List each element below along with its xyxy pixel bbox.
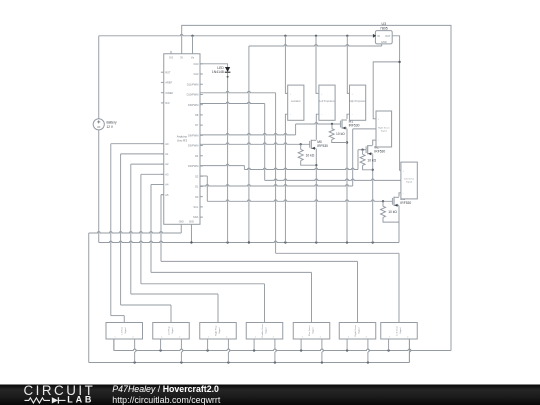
svg-text:Elev Servo: Elev Servo <box>308 325 311 336</box>
svg-text:2: 2 <box>226 337 227 339</box>
wire 12V to left propulsion fan + <box>316 36 318 94</box>
svg-text:2: 2 <box>273 337 274 339</box>
wire LED cathode to ground <box>227 73 229 243</box>
svg-text:D4: D4 <box>195 154 199 158</box>
wire D3 to M2 gate <box>200 149 366 170</box>
svg-text:OUT: OUT <box>385 34 391 38</box>
svg-text:D2: D2 <box>195 174 199 178</box>
resistor R2 10k pulldown <box>360 150 377 170</box>
wire D5 to M0 gate <box>200 143 310 146</box>
svg-text:Lift Fan: Lift Fan <box>121 326 124 334</box>
wire U3 OUT 5V to servo connectors <box>373 36 401 171</box>
connector P7 Left Servo <box>381 323 418 363</box>
wire 12V to levitation fan + <box>285 36 287 94</box>
wire A2 to bottom connector <box>131 164 218 322</box>
wire D1 to right servo signal <box>200 129 376 186</box>
svg-text:GND: GND <box>189 222 194 224</box>
svg-text:2: 2 <box>407 337 408 339</box>
svg-text:Signal: Signal <box>265 327 267 334</box>
connector P5 Elev Servo <box>293 323 330 363</box>
svg-text:7805: 7805 <box>380 27 388 31</box>
servo box Right Servo Signal <box>376 111 392 147</box>
svg-text:10 kΩ: 10 kΩ <box>388 210 397 214</box>
svg-text:5V: 5V <box>180 58 183 60</box>
svg-text:Right Servo: Right Servo <box>378 126 390 129</box>
wire M1 source to ground <box>346 129 348 243</box>
wire Vin feed <box>192 36 194 54</box>
svg-text:Uno R3: Uno R3 <box>177 139 188 143</box>
svg-text:2: 2 <box>132 337 133 339</box>
CircuitLab logo <box>24 383 96 405</box>
svg-text:D13: D13 <box>194 62 199 66</box>
svg-text:IN: IN <box>377 34 380 38</box>
wire right prop fan - to M1 drain <box>347 114 350 119</box>
svg-text:D12: D12 <box>194 72 199 76</box>
svg-text:A1: A1 <box>165 152 169 156</box>
svg-text:D3/PWM: D3/PWM <box>188 164 198 168</box>
transistor M1 IRF530 <box>340 119 359 129</box>
resistor R1 10k pulldown <box>329 124 347 143</box>
svg-text:1: 1 <box>302 337 303 339</box>
svg-text:Battery: Battery <box>107 121 118 125</box>
svg-text:D8: D8 <box>195 113 199 117</box>
wire main ground bus from battery minus <box>99 130 399 244</box>
svg-text:Left Prop: Left Prop <box>168 325 171 335</box>
wire Arduino GND2 stub <box>190 224 192 242</box>
svg-text:Right Servo: Right Servo <box>354 324 357 336</box>
svg-text:AREF: AREF <box>165 81 172 85</box>
transistor M2 IRF530 <box>366 145 385 155</box>
svg-text:IRF530: IRF530 <box>400 201 411 205</box>
svg-text:Signal: Signal <box>125 327 127 334</box>
svg-text:D0: D0 <box>195 195 199 199</box>
svg-text:Signal: Signal <box>312 327 314 334</box>
connector P4 Rudder Servo <box>246 323 283 363</box>
svg-text:2: 2 <box>366 337 367 339</box>
fan box Right Propulsion <box>349 85 367 120</box>
wire U3 GND to ground bus <box>249 44 382 243</box>
wire Arduino GND1 to left ground loop and bottom ground bus <box>89 224 410 363</box>
servo box Left Servo Signal <box>401 162 417 199</box>
svg-text:D5/PWM: D5/PWM <box>188 144 198 148</box>
svg-text:IRF530: IRF530 <box>374 150 385 154</box>
svg-text:A4: A4 <box>165 183 169 187</box>
svg-text:1: 1 <box>114 337 115 339</box>
wire A3 to bottom connector <box>141 174 265 322</box>
wire 5V rail from Arduino 5V pin to bottom connector bus <box>114 25 451 351</box>
svg-text:3V3: 3V3 <box>169 58 174 60</box>
footer title text <box>112 384 221 405</box>
wire M0 source to ground <box>315 149 317 243</box>
wire A0 to bottom connector <box>111 144 164 323</box>
svg-text:A0: A0 <box>165 142 169 146</box>
svg-text:LAB: LAB <box>67 395 94 405</box>
wire M2 drain to right servo gnd pin <box>373 140 376 145</box>
svg-text:RST: RST <box>165 70 171 74</box>
resistor R0 10k pulldown <box>298 144 316 165</box>
svg-text:U3: U3 <box>382 22 387 26</box>
connector P1 Lift Fan <box>106 323 143 363</box>
wire A5 to bottom connector <box>161 195 358 323</box>
svg-text:GND: GND <box>179 222 184 224</box>
battery V1 12V <box>93 119 117 130</box>
wire D9 to left servo signal <box>200 102 401 180</box>
wire 12V to right propulsion fan + <box>347 36 349 94</box>
svg-text:A2: A2 <box>165 162 169 166</box>
svg-text:Signal: Signal <box>358 327 360 334</box>
svg-text:SDA: SDA <box>193 215 199 219</box>
wire D2 to M3 gate <box>200 176 392 203</box>
svg-text:D10/PWM: D10/PWM <box>187 93 199 97</box>
svg-text:http://circuitlab.com/ceqwrrt: http://circuitlab.com/ceqwrrt <box>112 395 221 405</box>
wire A4 to bottom connector <box>151 185 312 323</box>
svg-text:P47Healey / Hovercraft2.0: P47Healey / Hovercraft2.0 <box>112 384 219 394</box>
svg-text:1: 1 <box>161 337 162 339</box>
svg-text:Signal: Signal <box>400 327 402 334</box>
svg-text:IRF530: IRF530 <box>349 124 360 128</box>
svg-text:Rudder Servo: Rudder Servo <box>261 323 264 337</box>
connector P3 Right Prop <box>200 323 237 363</box>
connector P6 Right Servo <box>339 323 376 363</box>
svg-text:Signal: Signal <box>172 327 174 334</box>
svg-text:IOREF: IOREF <box>165 91 173 95</box>
svg-text:2: 2 <box>179 337 180 339</box>
wire levitation fan - to ground <box>285 114 287 242</box>
svg-text:Left Servo: Left Servo <box>396 325 399 336</box>
svg-text:Signal: Signal <box>406 182 413 184</box>
Arduino Uno R3 U1 <box>161 51 203 224</box>
svg-text:IRF530: IRF530 <box>317 144 328 148</box>
fan box Levitation <box>288 85 304 120</box>
wire D13 to LED <box>200 64 228 67</box>
footer bar <box>0 385 540 405</box>
LED D1 1N4148 <box>212 66 230 74</box>
svg-text:Right Prop: Right Prop <box>215 325 218 336</box>
wire 12V rail from battery to U3 IN and fan box feeds <box>99 34 373 119</box>
connector P2 Left Prop <box>153 323 190 363</box>
svg-text:Left Propulsion: Left Propulsion <box>319 100 335 103</box>
fan box Left Propulsion <box>319 85 335 120</box>
svg-text:Signal: Signal <box>381 131 388 133</box>
svg-text:1: 1 <box>208 337 209 339</box>
svg-text:1: 1 <box>348 337 349 339</box>
svg-text:10 kΩ: 10 kΩ <box>367 159 376 163</box>
wire A1 to bottom connector <box>121 154 171 323</box>
svg-text:10 kΩ: 10 kΩ <box>306 154 315 158</box>
svg-text:Left Servo: Left Servo <box>404 178 415 181</box>
transistor M3 IRF530 <box>392 197 411 207</box>
svg-text:N/C: N/C <box>165 101 170 105</box>
svg-text:D7: D7 <box>195 123 199 127</box>
svg-text:D6/PWM: D6/PWM <box>188 133 198 137</box>
wire D10 to connector P7 <box>200 91 399 322</box>
wire M2 source to ground <box>372 154 374 242</box>
wire D6 to M1 gate <box>200 123 340 135</box>
wire M3 drain to left servo gnd pin <box>399 193 401 197</box>
svg-text:A5: A5 <box>165 193 169 197</box>
svg-text:A3: A3 <box>165 172 169 176</box>
svg-text:12 V: 12 V <box>107 125 114 129</box>
svg-text:Signal: Signal <box>219 327 221 334</box>
transistor M0 IRF530 <box>310 140 328 150</box>
svg-text:2: 2 <box>320 337 321 339</box>
resistor R3 10k pulldown <box>381 201 400 222</box>
svg-text:D1: D1 <box>195 185 199 189</box>
svg-text:SCL: SCL <box>193 205 199 209</box>
svg-text:Levitation: Levitation <box>291 100 302 103</box>
svg-text:1: 1 <box>255 337 256 339</box>
svg-text:D9/PWM: D9/PWM <box>188 103 198 107</box>
svg-text:GND: GND <box>381 40 387 44</box>
voltage regulator U3 7805 <box>373 22 392 44</box>
svg-text:D11/PWM: D11/PWM <box>187 82 199 86</box>
svg-text:1: 1 <box>389 337 390 339</box>
svg-text:1N4148: 1N4148 <box>212 70 224 74</box>
svg-text:Right Propulsion: Right Propulsion <box>349 100 367 103</box>
svg-text:10 kΩ: 10 kΩ <box>336 132 345 136</box>
wire left prop fan - to M0 drain <box>316 114 319 140</box>
